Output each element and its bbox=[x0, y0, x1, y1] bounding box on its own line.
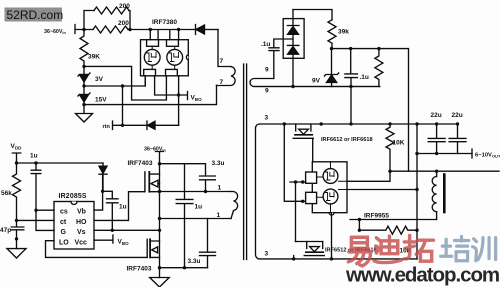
svg-text:ct: ct bbox=[60, 219, 67, 226]
wire package right pin row y181.3 bbox=[347, 171, 390, 181]
capacitor .1u (9V rail) bbox=[345, 47, 358, 88]
terminal rtn bbox=[113, 121, 124, 130]
svg-text:7: 7 bbox=[220, 58, 224, 65]
node junction 3V row bbox=[82, 84, 85, 87]
capacitor 3.3u (bottom) bbox=[200, 219, 216, 268]
svg-text:IRF9955: IRF9955 bbox=[364, 213, 389, 220]
resistor 56k vertical bbox=[13, 163, 21, 220]
svg-text:VDD: VDD bbox=[11, 143, 23, 151]
zener diode 9V bbox=[324, 49, 338, 87]
svg-text:IRF7380: IRF7380 bbox=[152, 19, 177, 26]
transistor Q3 glyph (upper die) bbox=[326, 172, 335, 181]
pins IRF7380 top (drain pairs) bbox=[149, 28, 181, 40]
node junction Vs at rail bbox=[158, 229, 161, 232]
svg-text:3V: 3V bbox=[95, 76, 104, 83]
svg-text:6~10VOUT: 6~10VOUT bbox=[475, 153, 500, 159]
svg-text:22u: 22u bbox=[431, 112, 442, 119]
node junction x122.5 on 3V row bbox=[121, 84, 124, 87]
resistor (39k node to 9V row) bbox=[375, 47, 383, 87]
capacitor 22u (right) bbox=[449, 124, 466, 154]
wire row y219.5 (package to inductor) bbox=[350, 219, 437, 221]
wire upper branch to resistor R-200a bbox=[84, 11, 94, 30]
node junction high-side source bbox=[158, 190, 161, 193]
wire from R200a to junction bbox=[129, 11, 130, 30]
wire package left pin row y201.3 bbox=[301, 200, 304, 203]
zener diode 15V bbox=[78, 86, 90, 105]
diode D-rtn (cathode left) bbox=[123, 121, 179, 130]
svg-text:1u: 1u bbox=[195, 204, 203, 211]
transformer T1 core bbox=[244, 64, 247, 260]
wire Vcc row to VBO terminal bbox=[94, 239, 112, 241]
wire gate row from 39K node to package bbox=[84, 66, 166, 100]
node junction rail top bbox=[158, 162, 161, 165]
svg-text:HO: HO bbox=[76, 219, 87, 226]
svg-text:Vb: Vb bbox=[77, 209, 86, 216]
node junction row124 x351 bbox=[349, 122, 352, 125]
node junction at 3.3u bottom bbox=[204, 190, 207, 193]
svg-text:1u: 1u bbox=[30, 153, 38, 160]
wire bottom return row y258.9 bbox=[292, 257, 295, 260]
wire VDD row to bootstrap diode bbox=[17, 162, 104, 164]
node junction Vs row at cap bbox=[111, 229, 114, 232]
transformer T1 primary winding 7+7 bbox=[217, 67, 236, 86]
resistor 39K vertical bbox=[80, 30, 88, 67]
wire package bottom pin down bbox=[331, 213, 333, 259]
svg-text:IRF7403: IRF7403 bbox=[127, 266, 152, 273]
node junction package bottom at row258.9 bbox=[330, 257, 333, 260]
resistor R 200 (bottom) bbox=[93, 26, 128, 33]
svg-text:36~60Vin: 36~60Vin bbox=[44, 29, 66, 35]
wire half-bridge rail bbox=[159, 164, 161, 278]
wire package left pin row y182 bbox=[290, 181, 306, 183]
svg-text:3.3u: 3.3u bbox=[212, 160, 225, 167]
node junction VDD bbox=[15, 161, 18, 164]
wire cap row y163.7 bbox=[160, 164, 206, 176]
node junction rail bottom row bbox=[158, 266, 161, 269]
node junction cs row bbox=[34, 209, 37, 212]
svg-text:1: 1 bbox=[218, 185, 222, 192]
svg-text:IR2085S: IR2085S bbox=[59, 193, 87, 200]
wire long row y104.6 to transformer primary bottom bbox=[84, 85, 217, 104]
svg-text:LO: LO bbox=[59, 240, 69, 247]
svg-text:IRF7403: IRF7403 bbox=[128, 160, 153, 167]
svg-text:36~60Vin: 36~60Vin bbox=[144, 147, 166, 153]
ground symbol (half-bridge) bbox=[150, 278, 170, 287]
svg-text:IRF6612 or IRF6618: IRF6612 or IRF6618 bbox=[321, 137, 373, 143]
transistor IRF7403 low-side bbox=[147, 239, 159, 257]
capacitor 47p bbox=[11, 220, 23, 248]
svg-text:10K: 10K bbox=[393, 140, 405, 147]
wire input row to IRF7380 drains and diode bbox=[84, 28, 195, 31]
wire ct row bbox=[17, 219, 55, 221]
capacitor 1u (mid) bbox=[176, 164, 193, 268]
node junction row124 x390 bbox=[388, 122, 391, 125]
transistor sync-FET IRF6612 (top) bbox=[284, 124, 313, 201]
svg-text:15V: 15V bbox=[95, 97, 107, 104]
op-amp U1 IR2085S package outline bbox=[54, 202, 94, 250]
wire vertical B x417 bbox=[416, 124, 418, 259]
diode D-top (cathode left) at input row bbox=[196, 25, 219, 35]
wire G row bbox=[36, 210, 54, 230]
svg-text:VBO: VBO bbox=[191, 95, 203, 103]
wire Vs row to half-bridge bbox=[94, 229, 160, 231]
inductor L1 output choke bbox=[432, 170, 444, 220]
transistor IRF7403 high-side bbox=[145, 172, 160, 192]
wire bottom row bbox=[160, 267, 208, 269]
svg-text:www.edatop.com: www.edatop.com bbox=[345, 264, 499, 287]
diode pair package D3/D4 (voltage doubler) bbox=[283, 10, 304, 87]
node junction 39K bottom bbox=[82, 65, 85, 68]
wire output row y153.5 bbox=[417, 153, 472, 155]
capacitor 22u (left) bbox=[428, 124, 445, 154]
transistor Q2 glyph (right die) bbox=[169, 53, 178, 62]
svg-text:3: 3 bbox=[265, 115, 269, 122]
wire doubler top row bbox=[293, 10, 332, 20]
wire HO row to gate of high-side FET bbox=[94, 192, 145, 221]
transformer T1 secondary 9+9 bbox=[250, 79, 380, 87]
node junction row124 x436.6 bbox=[435, 122, 438, 125]
svg-text:39K: 39K bbox=[88, 54, 100, 61]
dual MOSFET package U3 IRF9955 bbox=[306, 162, 347, 215]
transistor Q1 glyph (left die) bbox=[147, 53, 156, 62]
svg-text:VBO: VBO bbox=[118, 239, 130, 247]
node junction row124 x417 bbox=[415, 122, 418, 125]
wire winding row top y191.5 bbox=[160, 191, 232, 193]
svg-text:3.3u: 3.3u bbox=[188, 258, 201, 265]
wire 9V row bbox=[254, 86, 380, 88]
terminal VBO (upper) bbox=[187, 92, 189, 100]
zener diode 3V bbox=[78, 66, 90, 86]
svg-text:200: 200 bbox=[118, 20, 129, 27]
wire Vb pin to bootstrap node bbox=[94, 174, 103, 210]
node VDD terminal (left middle) bbox=[12, 153, 20, 163]
node junction ct row bbox=[15, 219, 18, 222]
transistor sync-FET IRF6612 (bottom) bbox=[296, 242, 325, 256]
resistor R 200 (top) bbox=[94, 7, 129, 14]
capacitor 3.3u (top) bbox=[200, 176, 216, 192]
svg-text:Vcc: Vcc bbox=[75, 240, 88, 247]
wire vertical x295.5 down to FET2 row bbox=[295, 182, 297, 242]
node junction bootstrap bbox=[101, 190, 104, 193]
svg-text:Vs: Vs bbox=[77, 229, 86, 236]
svg-text:39k: 39k bbox=[338, 29, 349, 36]
node junction row124 x321.2 bbox=[320, 122, 323, 125]
svg-text:9: 9 bbox=[265, 67, 269, 74]
wire 3V row to package source pin bbox=[84, 77, 145, 87]
node junction 1u at bottom row bbox=[183, 266, 186, 269]
wire from 9V row down to gate row bbox=[350, 87, 352, 124]
node junction 10K bottom bbox=[388, 170, 391, 173]
node junction VBO row bbox=[177, 93, 180, 96]
wire cs row bbox=[36, 209, 54, 211]
wire main row y124 bbox=[256, 124, 418, 259]
wire VBO row from package pin to terminal bbox=[155, 77, 187, 96]
watermark Chinese characters (drawn glyph blocks) bbox=[348, 236, 433, 266]
diode bootstrap (pointing down) bbox=[99, 163, 107, 191]
svg-text:56k: 56k bbox=[1, 190, 12, 197]
svg-text:.1u: .1u bbox=[261, 41, 270, 48]
svg-text:cs: cs bbox=[60, 209, 68, 216]
node junction row124 x284.3 bbox=[283, 122, 286, 125]
capacitor .1u (doubler series) bbox=[269, 39, 293, 79]
transistor Q4 glyph (lower die) bbox=[326, 192, 335, 201]
svg-text:47p: 47p bbox=[0, 227, 11, 234]
svg-text:3: 3 bbox=[265, 251, 269, 258]
node junction 15V bottom bbox=[82, 103, 85, 106]
svg-text:9: 9 bbox=[265, 88, 269, 95]
node 36-60Vin terminal (half-bridge) bbox=[156, 152, 164, 164]
ground symbol (below 47p) bbox=[7, 249, 26, 258]
node junction below 47p bbox=[15, 237, 18, 240]
transformer T1 winding 1+1 bbox=[231, 192, 238, 219]
svg-text:22u: 22u bbox=[452, 112, 463, 119]
svg-text:200: 200 bbox=[119, 3, 130, 10]
capacitor 1u (VDD bypass) bbox=[31, 161, 41, 210]
wire from diode down to transformer primary top bbox=[218, 30, 231, 67]
terminal 6-10V out bbox=[471, 149, 473, 158]
watermark 52RD.com bbox=[5, 8, 64, 23]
wire x122.5 vertical 3V row to rtn row bbox=[122, 86, 124, 125]
svg-text:9V: 9V bbox=[312, 78, 321, 85]
node junction rail y218.5 bbox=[158, 217, 161, 220]
svg-text:.1u: .1u bbox=[360, 74, 369, 81]
wire row y171.2 bbox=[390, 170, 499, 172]
ground symbol (top left) bbox=[76, 105, 93, 122]
resistor 10K (lower) row y230.2 bbox=[358, 218, 417, 234]
svg-text:1: 1 bbox=[217, 212, 221, 219]
wire package right pin row y189.5 bbox=[347, 189, 417, 191]
wire row y48.6 bbox=[332, 49, 409, 172]
dual MOSFET package IRF7380 bbox=[141, 40, 189, 76]
wire package pin down through VBO row to rtn row bbox=[178, 77, 180, 126]
svg-text:rtn: rtn bbox=[103, 124, 111, 130]
resistor 39k vertical bbox=[328, 20, 336, 49]
resistor 10K (row124 to row171) bbox=[386, 124, 394, 171]
terminal VBO (lower) bbox=[112, 235, 114, 243]
svg-text:1u: 1u bbox=[119, 204, 127, 211]
svg-text:7: 7 bbox=[220, 79, 224, 86]
pins IRF7380 bottom (source/gate) bbox=[145, 76, 178, 86]
wire LO to lower gate row bbox=[46, 241, 148, 258]
node junction rtn row bbox=[121, 124, 124, 127]
node junction 39k bottom bbox=[330, 47, 333, 50]
svg-text:52RD.com: 52RD.com bbox=[7, 8, 64, 22]
svg-text:G: G bbox=[61, 229, 67, 236]
capacitor 1u bootstrap bbox=[103, 191, 118, 230]
node junction doubler bottom at 9V row bbox=[291, 85, 294, 88]
wire winding row bottom y218.5 bbox=[160, 218, 232, 220]
node 36-60Vin input terminal (top left) bbox=[75, 25, 86, 34]
